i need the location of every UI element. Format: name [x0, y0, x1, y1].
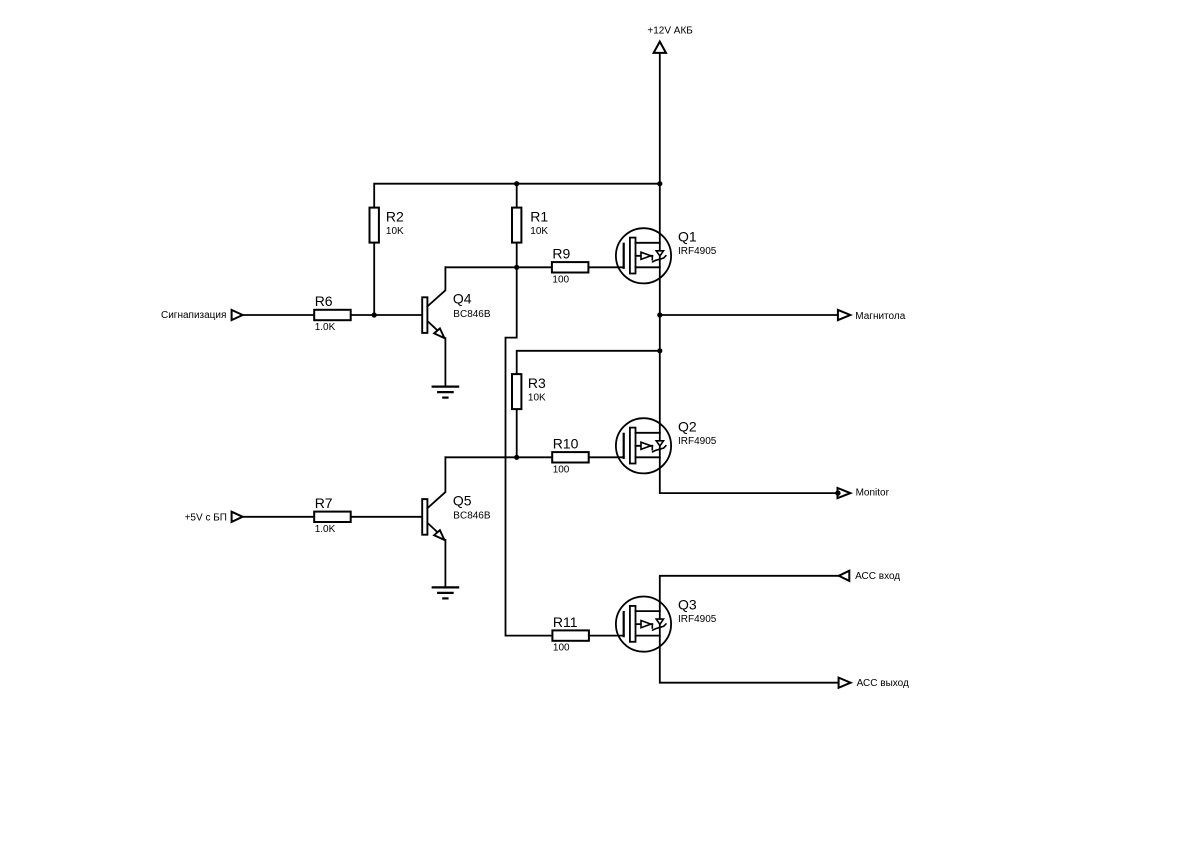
resistor R10 — [552, 452, 589, 462]
node output Monitor — [838, 488, 851, 498]
node input +5V с БП — [232, 512, 243, 522]
svg-text:R9: R9 — [552, 246, 570, 262]
wire R7 to Q5 base — [351, 516, 423, 518]
svg-text:Сигнапизация: Сигнапизация — [161, 310, 226, 321]
svg-text:IRF4905: IRF4905 — [678, 614, 717, 625]
svg-text:+12V АКБ: +12V АКБ — [647, 26, 693, 37]
svg-text:100: 100 — [553, 643, 570, 654]
resistor R6 — [314, 310, 351, 320]
svg-text:1.0K: 1.0K — [315, 322, 336, 333]
svg-text:Q3: Q3 — [678, 597, 697, 613]
svg-text:10K: 10K — [530, 226, 548, 237]
wire gate net 1: R1 bottom jog down to R11 — [506, 267, 553, 635]
wire Магнитола output — [660, 314, 838, 316]
wire R9 to Q1 gate — [588, 266, 623, 268]
node junction R2 bottom / signal wire — [372, 312, 377, 317]
resistor R9 — [552, 262, 589, 272]
wire R1 top lead — [516, 184, 518, 208]
transistor Q4 collector — [427, 267, 445, 306]
svg-text:R2: R2 — [386, 209, 404, 225]
transistor Q2 P-MOSFET IRF4905 — [616, 418, 671, 473]
node junction Магнитола / rail — [657, 312, 662, 317]
wire R3 top to source/drain node — [517, 351, 660, 374]
svg-text:+5V с БП: +5V с БП — [185, 512, 227, 523]
svg-text:Q4: Q4 — [453, 291, 472, 307]
svg-text:Q1: Q1 — [678, 228, 697, 244]
wire R10 to Q2 gate — [588, 456, 623, 458]
svg-text:R10: R10 — [553, 436, 579, 452]
svg-text:10K: 10K — [528, 393, 546, 404]
node junction top rail / R1 — [514, 181, 519, 186]
resistor R2 — [370, 208, 379, 243]
svg-text:Q2: Q2 — [678, 418, 697, 434]
node input АСС вход — [839, 571, 850, 581]
resistor R3 — [512, 374, 521, 409]
svg-text:R6: R6 — [315, 293, 333, 309]
svg-text:Monitor: Monitor — [856, 488, 890, 499]
transistor Q5 collector — [427, 457, 445, 508]
node output Магнитола — [838, 310, 850, 320]
svg-text:R11: R11 — [553, 614, 578, 630]
svg-text:BC846B: BC846B — [453, 511, 491, 522]
svg-text:100: 100 — [552, 274, 569, 285]
wire R2 bottom lead — [373, 243, 375, 315]
transistor Q4 BC846B base bar — [422, 297, 427, 333]
svg-text:BC846B: BC846B — [453, 309, 491, 320]
svg-text:IRF4905: IRF4905 — [678, 436, 717, 447]
svg-text:1.0K: 1.0K — [315, 524, 336, 535]
svg-text:Магнитола: Магнитола — [855, 311, 905, 322]
wire +12V rail vertical, down to Monitor output — [660, 53, 837, 493]
ground — [433, 586, 458, 588]
transistor Q4 emitter — [429, 322, 437, 330]
node output АСС выход — [839, 678, 851, 688]
resistor R1 — [512, 208, 521, 243]
wire gate net 2: Q5 collector to R10 — [445, 456, 552, 458]
transistor Q5 BC846B base bar — [422, 499, 427, 535]
wire top horizontal rail to R2/R1 — [374, 184, 660, 208]
transistor Q3 P-MOSFET IRF4905 — [616, 597, 671, 652]
wire R1 bottom lead — [516, 243, 518, 268]
svg-text:IRF4905: IRF4905 — [678, 246, 717, 257]
wire R6 to Q4 base — [351, 314, 423, 316]
node junction R1 bottom / gate net 1 — [514, 265, 519, 270]
wire R3 bottom lead — [516, 409, 518, 457]
transistor Q5 emitter — [429, 524, 437, 532]
wire R11 to Q3 gate — [589, 635, 624, 637]
node junction top rail / +12V rail — [657, 181, 662, 186]
transistor Q1 P-MOSFET IRF4905 — [616, 228, 671, 283]
resistor R11 — [552, 630, 589, 640]
ground — [433, 386, 458, 388]
svg-text:10K: 10K — [386, 226, 404, 237]
node junction R3 bottom / gate net 2 — [514, 455, 519, 460]
svg-text:R3: R3 — [528, 375, 546, 391]
node input Сигнапизация — [232, 310, 243, 320]
svg-text:100: 100 — [553, 464, 570, 475]
wire input +5V to R7 — [243, 516, 315, 518]
power +12V АКБ arrow — [654, 42, 666, 53]
svg-text:АСС выход: АСС выход — [857, 678, 909, 689]
svg-text:R7: R7 — [315, 495, 333, 511]
svg-text:АСС вход: АСС вход — [855, 571, 900, 582]
wire Q4 collector to R9 — [445, 266, 552, 268]
svg-text:R1: R1 — [530, 209, 548, 225]
svg-text:Q5: Q5 — [453, 492, 472, 508]
resistor R7 — [314, 512, 351, 522]
node junction R3 wire / rail — [657, 348, 662, 353]
wire input Сигнапизация to R6 — [243, 314, 315, 316]
wire ACC вход / Q3 vertical / ACC выход — [660, 576, 839, 683]
